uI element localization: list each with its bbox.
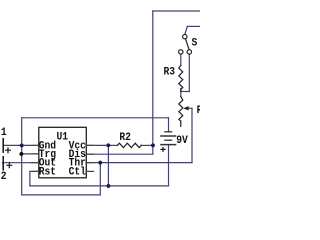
pin stub Dis: [86, 153, 94, 155]
battery plate long: [160, 135, 176, 138]
wire left frame vertical to R2 right and Dis row: [152, 11, 154, 154]
junction node R2 right frame: [151, 143, 155, 147]
svg-text:S: S: [192, 37, 198, 50]
wire Rst pin: [30, 170, 39, 172]
battery plus sign: [161, 147, 166, 152]
junction node Vcc net bottom: [106, 184, 110, 188]
wire switch feed drop: [185, 26, 187, 34]
wire R2 left lead: [108, 144, 117, 146]
potentiometer bottom lead: [180, 121, 182, 126]
pin stub Thr: [86, 161, 94, 163]
wire R3 bottom join horizontal: [181, 90, 190, 92]
wire switch feed horizontal: [187, 25, 200, 27]
wire battery bottom lead: [167, 145, 169, 186]
battery plate short: [164, 139, 172, 142]
wire left vertical through Gnd Trg dots: [21, 118, 23, 195]
svg-text:R3: R3: [164, 66, 176, 79]
switch S common circle: [183, 34, 187, 38]
wire bottom Trg-Thr horizontal: [22, 194, 101, 196]
wire Rst jog vertical: [29, 171, 31, 186]
pin stub Gnd: [32, 144, 40, 146]
terminal 1 plus: [5, 147, 11, 153]
wire Vcc vertical down: [107, 145, 109, 186]
svg-text:1: 1: [1, 126, 7, 139]
wire wiper vertical down: [191, 108, 193, 162]
battery plate short top: [164, 131, 172, 134]
switch S throw circle left: [179, 50, 183, 54]
switch S blade: [185, 39, 189, 50]
wire battery top lead: [167, 118, 169, 131]
terminal 2 plus: [6, 162, 12, 168]
wire Dis pin to frame: [86, 153, 153, 155]
resistor R2 zigzag: [117, 143, 141, 147]
wire battery top horizontal: [22, 117, 169, 119]
wire Thr drop vertical: [99, 163, 101, 195]
wire top frame horizontal: [153, 10, 200, 12]
svg-text:Rst: Rst: [39, 166, 56, 179]
pin stub Ctl: [86, 170, 94, 172]
terminal 1 bar: [2, 138, 5, 153]
junction node Gnd-battery: [20, 143, 24, 147]
svg-text:U1: U1: [57, 131, 69, 144]
wire Out to terminal 2: [3, 161, 39, 163]
potentiometer wiper arrowhead: [183, 106, 188, 110]
svg-text:R1: R1: [197, 104, 200, 117]
resistor R3 zigzag: [179, 65, 183, 91]
battery plate long bottom: [160, 143, 176, 146]
wire Trg from dot to box: [21, 153, 39, 155]
pin stub Out: [32, 161, 40, 163]
svg-text:Ctl: Ctl: [69, 166, 86, 179]
wire Gnd to terminal 1: [3, 144, 39, 146]
junction node Thr: [98, 161, 102, 165]
svg-text:2: 2: [1, 170, 7, 183]
pin stub Vcc: [86, 144, 94, 146]
svg-text:9V: 9V: [176, 135, 188, 148]
pin stub Trg: [32, 153, 40, 155]
junction node R2 left Vcc: [106, 143, 110, 147]
op-amp U1 555 box: [39, 127, 87, 178]
wire bottom Vcc-Rst net horizontal: [30, 185, 169, 187]
potentiometer R zigzag: [179, 97, 183, 122]
wire pot wiper horizontal: [188, 107, 192, 109]
pin stub Rst: [32, 170, 40, 172]
terminal 2 bar: [2, 156, 5, 171]
junction node Trg: [19, 152, 23, 156]
wire Vcc pin to R2 left: [86, 144, 108, 146]
svg-text:R2: R2: [119, 131, 131, 144]
wire switch left throw to R3: [180, 54, 182, 65]
wire Thr row horizontal to wiper: [86, 161, 192, 163]
wire switch right throw down: [188, 54, 190, 91]
wire R2 right lead: [141, 144, 153, 146]
switch S throw circle right: [187, 50, 191, 54]
wire R3 bottom to pot top: [180, 89, 182, 97]
